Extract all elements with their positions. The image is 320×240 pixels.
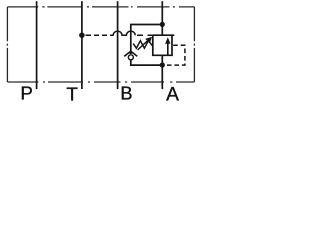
check valve seat apex fill bbox=[129, 51, 133, 54]
port line A upper segment bbox=[161, 1, 163, 35]
port line A lower segment bbox=[161, 55, 163, 89]
node T1 junction dot bbox=[79, 32, 85, 38]
adjustment arrow through spring bbox=[138, 37, 152, 50]
svg-text:P: P bbox=[20, 83, 33, 104]
relief valve V1 flow arrow bbox=[165, 37, 170, 55]
relief valve V1 body bbox=[153, 35, 175, 55]
svg-text:T: T bbox=[66, 83, 78, 104]
node A2 junction dot bbox=[160, 62, 165, 67]
plate boundary top chain line bbox=[7, 6, 194, 8]
check valve seat chevron bbox=[124, 51, 137, 56]
plate boundary bottom chain line bbox=[7, 81, 194, 83]
node A1 junction dot bbox=[160, 22, 165, 27]
wire bypass bottom from check valve to node A2 bbox=[131, 60, 163, 65]
port line T bbox=[81, 1, 83, 89]
plate boundary left chain line bbox=[6, 7, 8, 82]
drain pilot line from T with hops over B and branch bbox=[86, 31, 153, 35]
pilot line dashed from valve side to node A2 bbox=[166, 45, 185, 65]
port line P bbox=[36, 1, 38, 89]
spring of relief valve V1 bbox=[133, 41, 153, 49]
check valve ball bbox=[128, 55, 133, 60]
svg-text:B: B bbox=[120, 84, 132, 104]
plate boundary right chain line bbox=[193, 7, 195, 82]
port line B bbox=[117, 1, 119, 89]
wire branch from node A1 to check valve bbox=[131, 25, 163, 52]
svg-text:A: A bbox=[166, 85, 179, 105]
